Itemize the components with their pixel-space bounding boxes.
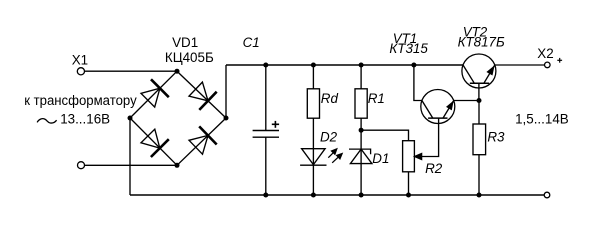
node R1 bottom: [359, 128, 364, 133]
svg-text:D2: D2: [320, 130, 338, 145]
node bridge bottom: [175, 163, 180, 168]
diode VD1.4 bottom-right: [189, 126, 217, 154]
LED D2: [300, 149, 326, 166]
node D2 bottom: [311, 193, 316, 198]
wire R1 to node and down through D1 to bottom rail: [360, 118, 362, 195]
node R2 bottom: [406, 193, 411, 198]
node bridge top: [175, 69, 180, 74]
AC tilde symbol: [37, 119, 56, 123]
label plus at X2: [557, 58, 562, 63]
LED D2 arrows: [328, 148, 342, 162]
svg-text:R3: R3: [487, 130, 505, 145]
zener D1: [349, 149, 372, 164]
wire VT1 emitter to node: [454, 100, 479, 102]
node D1 bottom: [359, 193, 364, 198]
capacitor C1 wires: [265, 65, 267, 131]
node VT1 emitter / VT2 base / R3: [477, 98, 482, 103]
wire R2 wiper to VT1 base: [422, 118, 439, 156]
transistor VT2: [462, 54, 496, 101]
potentiometer R2 wiper arrow: [415, 154, 422, 160]
svg-text:КЦ405Б: КЦ405Б: [165, 50, 214, 65]
node Rd top: [311, 63, 316, 68]
wire Rd to D2 and down to bottom rail: [312, 118, 314, 195]
wire node R1 to R2 top: [361, 130, 408, 141]
wire bottom rail: [130, 194, 544, 196]
wire VT2 emitter to X2: [495, 64, 545, 66]
node VT1 collector top: [411, 63, 416, 68]
node R1 top: [359, 63, 364, 68]
wire top rail to R1: [360, 65, 362, 89]
wire bridge side top-right: [177, 71, 226, 118]
wire bridge left node down to bottom rail: [129, 118, 131, 195]
wire R2 bottom to rail: [408, 172, 410, 195]
wire bridge right node up to top rail: [225, 65, 227, 118]
wire R3 to bottom rail: [478, 155, 480, 195]
svg-text:КТ817Б: КТ817Б: [458, 35, 505, 50]
svg-text:C1: C1: [243, 35, 260, 50]
svg-text:R1: R1: [368, 91, 385, 106]
terminal X2: [545, 62, 551, 68]
node C1 top: [263, 63, 268, 68]
transistor VT1: [421, 90, 455, 124]
wire lower terminal to bridge bottom node: [85, 164, 178, 166]
wire top rail to VT1 collector: [414, 65, 422, 101]
resistor R1: [355, 89, 367, 118]
svg-text:13...16В: 13...16В: [60, 112, 110, 127]
diode VD1.2 top-right: [189, 82, 217, 110]
wire bridge side bottom-right: [177, 118, 226, 165]
svg-text:R2: R2: [425, 161, 443, 176]
wire node to R3: [478, 101, 480, 125]
node bridge left: [128, 116, 133, 121]
resistor Rd: [307, 89, 319, 118]
wire top rail: [226, 64, 463, 66]
terminal lower-left (transformer): [78, 162, 85, 169]
wire bridge side left-top: [130, 71, 177, 118]
capacitor C1 plus sign: [272, 121, 279, 128]
wire top rail to Rd: [312, 65, 314, 89]
diode VD1.1 top-left: [141, 79, 169, 107]
svg-text:Rd: Rd: [321, 91, 339, 106]
terminal lower-right: [544, 192, 550, 198]
node R3 bottom: [477, 193, 482, 198]
potentiometer R2: [403, 141, 415, 172]
svg-text:X2: X2: [537, 46, 553, 61]
svg-text:КТ315: КТ315: [389, 41, 428, 56]
wire X1 to bridge top node: [85, 70, 178, 72]
svg-text:VD1: VD1: [172, 35, 198, 50]
node bridge right: [224, 116, 229, 121]
svg-text:X1: X1: [72, 53, 88, 68]
wire bridge side left-bottom: [130, 118, 177, 165]
svg-text:D1: D1: [372, 151, 389, 166]
resistor R3: [473, 124, 486, 155]
node C1 bottom: [263, 193, 268, 198]
capacitor C1 plates: [253, 130, 279, 132]
svg-text:1,5...14В: 1,5...14В: [515, 111, 569, 126]
diode VD1.3 bottom-left: [141, 129, 169, 157]
terminal X1: [77, 68, 84, 75]
svg-text:к трансформатору: к трансформатору: [24, 93, 137, 108]
